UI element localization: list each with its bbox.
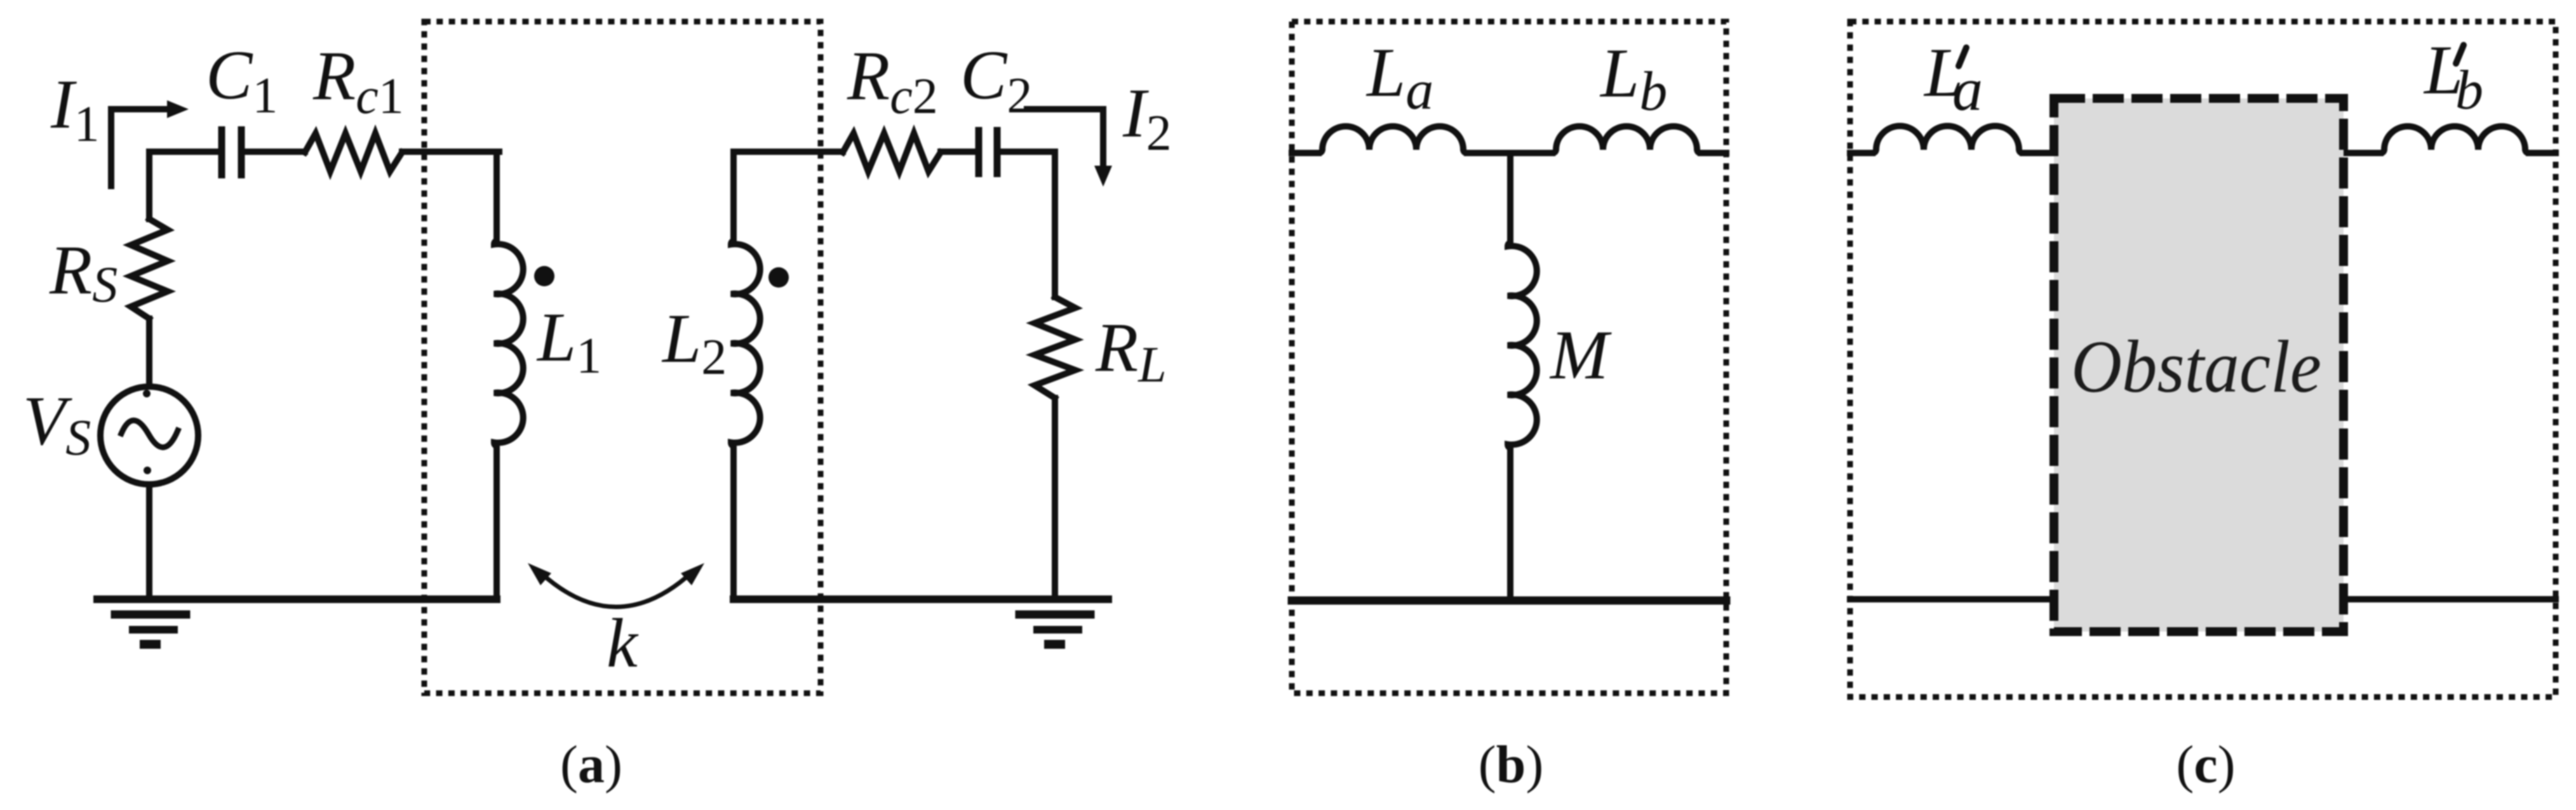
wire C2 to right corner down to RL [1000,152,1055,297]
svg-text:Obstacle: Obstacle [2071,325,2321,408]
current arrow I2 [1027,109,1103,166]
ground right [1019,611,1090,619]
wire RL to ground [1052,398,1058,599]
wire RS to VS [146,319,152,387]
dotted box (c) [1850,22,2556,697]
source VS [100,387,198,484]
resistor Rc2 [843,133,941,171]
wire top-left node to C1 [149,149,218,155]
wire left edge to La [1292,150,1318,156]
wire obstacle to L'b [2344,150,2380,156]
inductor L1 [494,152,523,599]
wire Rc2 to C2 [941,149,976,155]
bottom rail left (a) [97,595,497,603]
inductor L'a [1872,126,2023,154]
svg-text:(a): (a) [560,735,622,794]
bottom rail right (a) [734,595,1108,603]
svg-text:M: M [1549,316,1612,394]
wire L'b to right edge [2529,150,2556,156]
wire left branch down: node to RS [146,152,152,219]
wire VS to ground rail [146,484,152,599]
dotted box (b) [1292,22,1726,693]
wire Lb to right edge [1701,150,1726,156]
wire L'a to obstacle [2023,150,2058,156]
wire C1 to Rc1 [245,149,305,155]
obstacle box [2054,98,2344,632]
bottom rail (c) left [1850,596,2058,602]
dot marker L1 [534,266,554,286]
bottom rail (c) right [2344,596,2556,602]
svg-text:(c): (c) [2176,735,2235,794]
current arrow I1 [111,109,167,186]
dotted box (a) coupled-coil region [424,22,821,693]
wire left edge to L'a [1850,150,1872,156]
resistor RS [131,219,168,319]
inductor L'b [2380,126,2529,153]
inductor La [1318,126,1467,153]
prime mark of L'a [1959,48,1966,66]
wire La to T node [1467,150,1552,156]
bottom rail (b) [1292,597,1726,605]
capacitor C1 [222,126,241,178]
ground left [115,611,186,619]
capacitor C2 [979,127,997,177]
coupling arrow k [540,573,692,607]
wire Rc1 to L1 top [402,149,499,155]
resistor Rc1 [305,133,402,171]
resistor RL [1035,297,1075,398]
svg-text:b: b [2455,60,2483,121]
dot marker L2 [768,267,789,288]
prime mark of L'b [2456,45,2464,63]
inductor Lb [1552,126,1701,153]
svg-text:k: k [607,604,639,682]
inductor M vertical [1508,153,1537,601]
wire L2 top to Rc2 [734,149,843,155]
inductor L2 [731,152,760,599]
svg-text:(b): (b) [1479,735,1544,794]
